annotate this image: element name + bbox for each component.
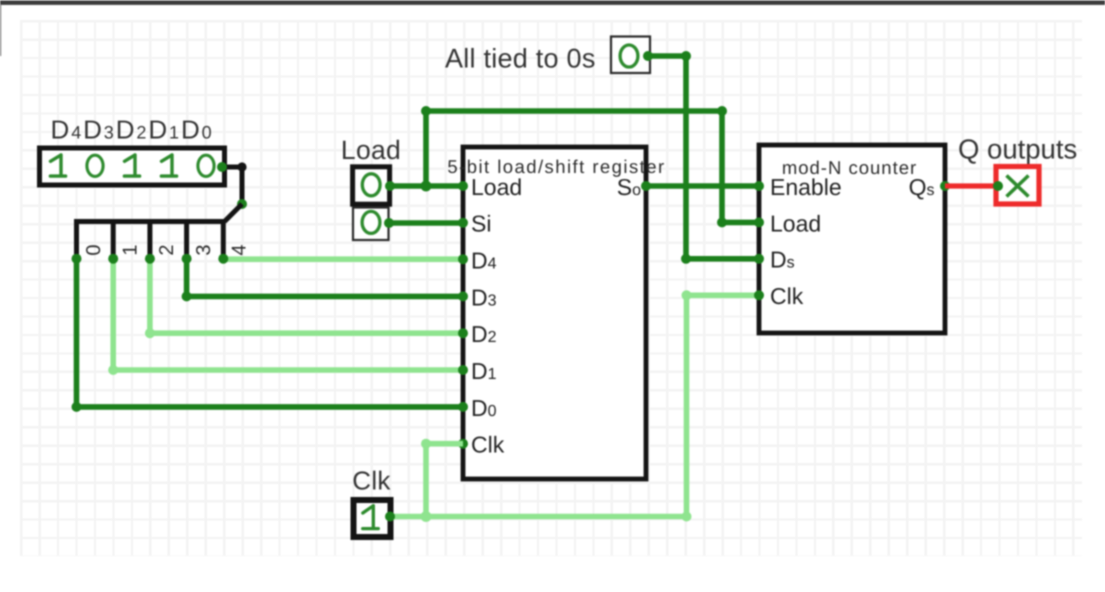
bus wire from display to splitter	[222, 167, 242, 204]
splitter drop 4	[221, 219, 226, 259]
Si box output dot	[384, 218, 394, 228]
svg-text:Clk: Clk	[471, 432, 505, 458]
register pin D0 dot	[458, 402, 468, 412]
wire Clk net (light green)	[390, 295, 759, 516]
counter pin Enable dot	[754, 181, 764, 191]
bus node dot (green)	[237, 199, 247, 209]
svg-text:Load: Load	[341, 135, 401, 165]
wire D3 net (low, dark green)	[187, 259, 463, 297]
corner dot	[681, 254, 691, 264]
corner dot D3	[182, 291, 192, 301]
register pin So dot	[641, 181, 651, 191]
counter pin Clk dot	[754, 290, 764, 300]
counter pin Load dot	[754, 217, 764, 227]
register pin D1 dot	[458, 365, 468, 375]
display box output dot	[217, 162, 227, 172]
corner dot	[717, 106, 727, 116]
junction dot Load	[421, 181, 432, 192]
corner dot	[717, 217, 727, 227]
wire Clk branch to register	[426, 444, 463, 517]
svg-text:4: 4	[229, 244, 251, 255]
splitter bar	[77, 219, 225, 224]
splitter drop 3	[184, 219, 189, 259]
wire Qs to X probe (red)	[945, 183, 996, 188]
wire D1 net (high, light green)	[113, 259, 463, 370]
splitter diagonal	[225, 204, 243, 222]
Clk box output dot	[385, 512, 395, 522]
svg-text:Q outputs: Q outputs	[958, 134, 1077, 165]
svg-text:1: 1	[119, 244, 141, 255]
counter U2: mod-N counter	[759, 145, 945, 333]
svg-text:All tied to 0s: All tied to 0s	[445, 44, 596, 74]
register pin Clk dot	[458, 439, 468, 449]
register pin D3 dot	[458, 291, 468, 301]
svg-text:D4D3D2D1D0: D4D3D2D1D0	[51, 115, 214, 145]
corner dot D0	[72, 402, 82, 412]
switch box all-tied (value 0)	[611, 37, 650, 74]
wire Load net (dark green)	[390, 183, 463, 189]
corner dot	[421, 439, 431, 449]
switch box Clk (value 1)	[354, 500, 391, 537]
splitter pin 3 dot	[182, 254, 192, 264]
wire D4 net (high, light green)	[223, 256, 463, 262]
counter pin Ds dot	[754, 254, 764, 264]
input display box D4..D0 value 10110	[40, 148, 225, 185]
register U1: 5-bit load/shift register	[447, 147, 665, 479]
register pin Si dot	[458, 218, 468, 228]
all-tied box output dot	[643, 51, 653, 61]
corner dot D2	[145, 328, 155, 338]
corner dot	[681, 51, 691, 61]
svg-text:Si: Si	[471, 211, 491, 237]
splitter drop 0	[74, 219, 79, 259]
corner dot	[682, 512, 692, 522]
splitter pin 4 dot	[218, 254, 228, 264]
svg-text:Load: Load	[770, 210, 821, 236]
splitter pin 1 dot	[108, 254, 118, 264]
wire all-tied net to Ds (dark green)	[648, 56, 759, 259]
counter pin Qs dot	[940, 181, 950, 191]
wire So to Enable (dark green)	[646, 183, 759, 189]
switch box Si (value 0)	[353, 208, 389, 241]
splitter pin 2 dot	[145, 254, 155, 264]
svg-text:Load: Load	[471, 174, 522, 200]
register pin Load dot	[458, 181, 468, 191]
wire Load branch to counter	[426, 111, 759, 222]
splitter drop 1	[111, 219, 116, 259]
register pin D2 dot	[458, 328, 468, 338]
wire D2 net (high, light green)	[150, 259, 463, 334]
svg-text:Clk: Clk	[770, 283, 804, 309]
corner dot D1	[108, 365, 118, 375]
output probe X box	[996, 167, 1039, 205]
splitter pin 0 dot	[72, 254, 82, 264]
corner dot	[682, 290, 692, 300]
splitter drop 2	[147, 219, 152, 259]
junction dot Clk	[421, 511, 432, 522]
bus corner dot	[237, 162, 246, 171]
wire D0 net (low, dark green)	[77, 259, 464, 407]
register pin D4 dot	[458, 254, 468, 264]
svg-text:0: 0	[83, 244, 105, 255]
wire Si net (dark green)	[389, 220, 463, 226]
X probe input dot	[993, 181, 1003, 191]
corner dot	[421, 106, 431, 116]
Load box output dot	[385, 181, 395, 191]
svg-text:3: 3	[193, 244, 215, 255]
switch box Load (value 0)	[353, 167, 390, 204]
svg-text:2: 2	[156, 244, 178, 255]
svg-text:Clk: Clk	[352, 466, 391, 496]
svg-text:Enable: Enable	[770, 174, 842, 200]
